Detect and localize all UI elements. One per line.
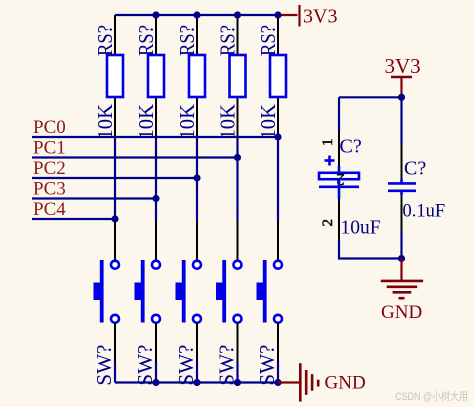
- svg-text:RS?: RS?: [93, 25, 117, 56]
- junction on top bus at R5: [274, 11, 281, 18]
- resistor R1 pin 1 (top): [114, 15, 116, 55]
- switch SW5 bottom contact: [274, 315, 282, 323]
- switch SW3 plunger bar: [182, 260, 186, 323]
- resistor R3 pin 1 (top): [196, 15, 198, 55]
- switch SW5 pin 1 (top): [277, 221, 279, 261]
- switch SW5 button: [257, 283, 267, 301]
- wire: column 1 from PC0 crossing down to switch pin: [114, 137, 116, 221]
- capacitor C2 top plate: [388, 179, 416, 183]
- power port GND (bottom, rotated bars): [278, 363, 366, 401]
- wire: net PC0 horizontal: [32, 136, 278, 138]
- resistor R5 pin 1 (top): [277, 15, 279, 55]
- switch SW1 button: [94, 283, 104, 301]
- svg-text:SW?: SW?: [133, 345, 157, 386]
- capacitor C1 positive plate (rect): [319, 173, 359, 179]
- wire: bottom GND bus: [115, 381, 278, 383]
- junction on top bus at R3: [193, 11, 200, 18]
- wire: switch SW3 to bottom bus: [196, 362, 198, 383]
- svg-text:PC1: PC1: [33, 138, 66, 159]
- power port 3V3 (right circuit): [385, 54, 421, 97]
- svg-text:SW?: SW?: [255, 345, 279, 386]
- wire: net PC3 horizontal: [32, 197, 156, 199]
- capacitor C2 bottom plate: [388, 191, 416, 195]
- resistor R2 body: [148, 55, 164, 97]
- switch SW2 pin 1 (top): [155, 221, 157, 261]
- capacitor C2 pin 2 line: [401, 195, 403, 231]
- junction on top bus at R2: [152, 11, 159, 18]
- wire: left branch to bottom of loop: [339, 240, 402, 259]
- svg-text:10K: 10K: [93, 104, 117, 140]
- svg-text:3V3: 3V3: [385, 54, 421, 78]
- switch SW2 plunger bar: [141, 260, 145, 323]
- junction node GND rail: [398, 255, 405, 262]
- switch SW4 top contact: [234, 261, 242, 269]
- junction on bottom bus at SW2: [152, 379, 159, 386]
- switch SW4 bottom contact: [234, 315, 242, 323]
- wire: column 3 from PC0 crossing down to switch pin: [196, 137, 198, 221]
- svg-text:10K: 10K: [215, 104, 239, 139]
- switch SW5 top contact: [274, 261, 282, 269]
- switch SW1 pin 1 (top): [114, 221, 116, 261]
- wire: 3V3 rail down to C2: [400, 97, 402, 143]
- wire: net PC2 horizontal: [32, 177, 197, 179]
- resistor R2 pin 1 (top): [155, 15, 157, 55]
- junction node PC1: [234, 154, 241, 161]
- capacitor C1 top stub: [338, 166, 341, 172]
- svg-text:10K: 10K: [175, 104, 199, 140]
- resistor R2 pin 2 (bottom): [155, 97, 157, 137]
- wire: column 2 from PC0 crossing down to switch pin: [155, 137, 157, 221]
- capacitor C1 pin 1 line: [338, 132, 340, 167]
- switch SW3 pin 1 (top): [196, 221, 198, 261]
- svg-text:RS?: RS?: [215, 25, 239, 56]
- switch SW2 pin 2 (bottom): [155, 323, 157, 362]
- capacitor C1 plus sign: [325, 156, 335, 166]
- svg-text:10K: 10K: [134, 104, 158, 140]
- svg-text:C?: C?: [404, 158, 426, 180]
- switch SW1 pin 2 (bottom): [114, 323, 116, 362]
- svg-text:3V3: 3V3: [303, 6, 337, 28]
- svg-text:1: 1: [320, 139, 336, 147]
- svg-text:SW?: SW?: [215, 345, 239, 386]
- switch SW2 top contact: [152, 261, 160, 269]
- junction node 3V3 rail: [398, 94, 405, 101]
- svg-text:RS?: RS?: [256, 25, 280, 56]
- wire: switch SW5 to bottom bus: [277, 362, 279, 383]
- junction node PC2: [193, 174, 200, 181]
- capacitor C1 negative plate: [319, 186, 359, 189]
- svg-text:10uF: 10uF: [341, 218, 381, 239]
- switch SW4 pin 1 (top): [237, 221, 239, 261]
- wire: left branch down to C1 pin 1: [338, 97, 340, 131]
- wire: switch SW1 to bottom bus: [114, 362, 116, 383]
- capacitor C1 pin 2 line: [338, 199, 340, 240]
- switch SW4 button: [216, 283, 226, 301]
- svg-text:0.1uF: 0.1uF: [403, 202, 446, 222]
- wire: C2 to GND node: [400, 231, 402, 259]
- switch SW3 pin 2 (bottom): [196, 323, 198, 362]
- switch SW3 top contact: [193, 261, 201, 269]
- switch SW5 plunger bar: [263, 260, 267, 323]
- switch SW2 bottom contact: [152, 315, 160, 323]
- resistor R4 pin 1 (top): [237, 15, 239, 55]
- svg-text:GND: GND: [325, 373, 366, 394]
- svg-text:RS?: RS?: [175, 25, 199, 56]
- junction on top bus at R4: [234, 11, 241, 18]
- resistor R5 body: [270, 55, 286, 97]
- switch SW4 plunger bar: [222, 260, 226, 323]
- switch SW2 button: [135, 283, 145, 301]
- junction node PC3: [152, 195, 159, 202]
- ground symbol (earth): [381, 259, 423, 299]
- svg-text:RS?: RS?: [134, 25, 158, 56]
- capacitor C1 inter-plate stub: [338, 181, 341, 187]
- wire: net PC4 horizontal: [32, 218, 115, 220]
- svg-text:PC3: PC3: [33, 179, 66, 200]
- resistor R3 pin 2 (bottom): [196, 97, 198, 137]
- switch SW5 pin 2 (bottom): [277, 323, 279, 362]
- wire: net PC1 horizontal: [32, 156, 238, 158]
- resistor R3 body: [189, 55, 205, 97]
- wire: column 5 from PC0 crossing down to switch pin: [277, 137, 279, 221]
- junction node PC0: [274, 133, 281, 140]
- switch SW1 bottom contact: [111, 315, 119, 323]
- junction node PC4: [111, 215, 118, 222]
- wire: top of decoupling loop: [339, 96, 402, 98]
- svg-text:PC2: PC2: [33, 158, 66, 179]
- capacitor C1 bottom stub: [338, 187, 341, 199]
- capacitor C2 pin 1 line: [401, 144, 403, 180]
- svg-text:2: 2: [320, 219, 336, 227]
- wire: switch SW2 to bottom bus: [155, 362, 157, 383]
- svg-text:PC4: PC4: [33, 199, 66, 220]
- svg-text:SW?: SW?: [92, 345, 116, 386]
- resistor R1 pin 2 (bottom): [114, 97, 116, 137]
- switch SW4 pin 2 (bottom): [237, 323, 239, 362]
- wire: column 4 from PC0 crossing down to switch pin: [236, 137, 238, 221]
- resistor R4 pin 2 (bottom): [237, 97, 239, 137]
- svg-text:GND: GND: [381, 302, 422, 323]
- svg-text:CSDN @小树大用: CSDN @小树大用: [395, 389, 468, 403]
- switch SW3 bottom contact: [193, 315, 201, 323]
- power port 3V3 (top right, bar style): [278, 5, 337, 28]
- svg-text:SW?: SW?: [174, 345, 198, 386]
- junction on bottom bus at SW4: [234, 379, 241, 386]
- svg-text:PC0: PC0: [33, 117, 66, 138]
- resistor R5 pin 2 (bottom): [277, 97, 279, 137]
- resistor R4 body: [230, 55, 246, 97]
- switch SW1 plunger bar: [100, 260, 104, 323]
- svg-text:C?: C?: [340, 136, 362, 158]
- switch SW1 top contact: [111, 261, 119, 269]
- wire: switch SW4 to bottom bus: [236, 362, 238, 383]
- junction on bottom bus at SW5: [274, 379, 281, 386]
- junction on bottom bus at SW3: [193, 379, 200, 386]
- resistor R1 body: [107, 55, 123, 97]
- wire: top 3V3 bus: [115, 14, 278, 16]
- switch SW3 button: [176, 283, 186, 301]
